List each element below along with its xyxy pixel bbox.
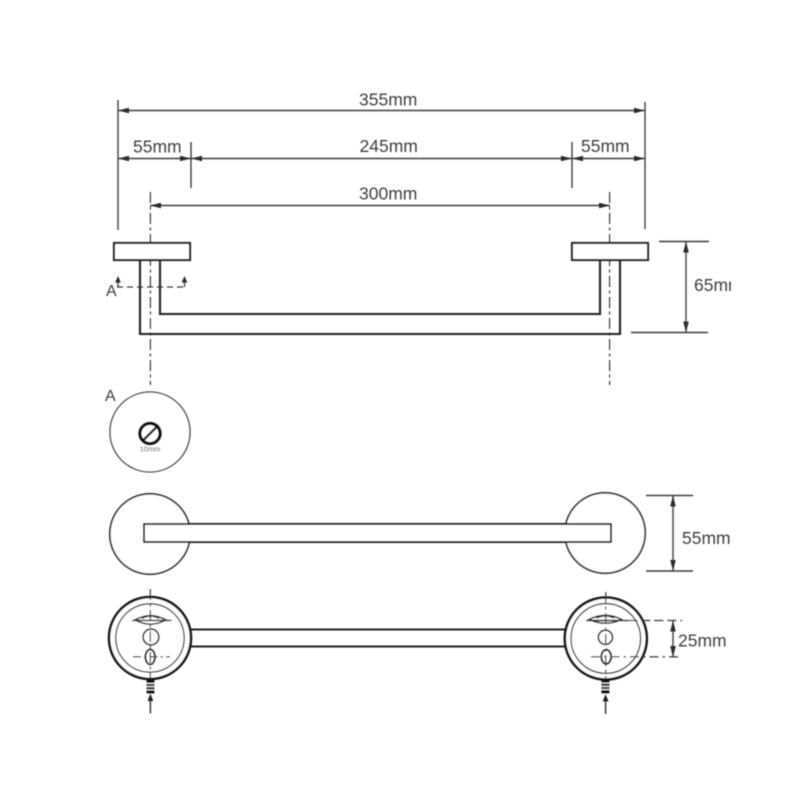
screw right: [601, 680, 609, 694]
keyhole slot right (lens): [589, 615, 621, 623]
dimension 55mm (side view): [646, 495, 693, 497]
keyhole slot left (lens): [135, 616, 166, 625]
extension tick at 191: [190, 142, 192, 188]
bottom view right inner circle: [571, 604, 641, 674]
wall plate right (top view): [572, 243, 648, 260]
vertical centerline bottom-left plate: [149, 589, 151, 678]
extension line left (355mm datum): [117, 100, 119, 230]
dimension 25mm extension dashes bottom: [591, 656, 682, 658]
screw left: [147, 680, 155, 693]
wall plate left (top view): [114, 243, 190, 260]
svg-text:55mm: 55mm: [133, 137, 182, 157]
screw circle left: [143, 629, 159, 645]
bottom view left outer circle: [109, 597, 191, 679]
bar outer outline (top view): [140, 260, 620, 334]
svg-text:55mm: 55mm: [682, 528, 731, 548]
horizontal centerline through oval left: [133, 656, 170, 658]
svg-text:355mm: 355mm: [359, 90, 417, 110]
dimension 55mm right line: [572, 158, 645, 160]
screw slot diagonal: [142, 425, 159, 442]
extension tick at 572: [571, 142, 573, 188]
centerline left post: [149, 192, 151, 385]
side view right circle: [565, 493, 645, 573]
screw circle right: [598, 630, 612, 644]
dimension 55mm left line: [118, 158, 191, 160]
bottom view bar lines: [191, 629, 565, 631]
side view left circle: [110, 494, 190, 574]
svg-text:A: A: [106, 283, 117, 300]
bottom view right outer circle: [565, 598, 647, 680]
vertical centerline bottom-right plate: [605, 592, 607, 678]
centerline right post: [609, 192, 611, 385]
svg-text:55mm: 55mm: [581, 136, 630, 156]
bar inner outline (top view): [160, 260, 600, 314]
svg-text:25mm: 25mm: [678, 631, 727, 651]
svg-text:A: A: [105, 388, 116, 405]
dimension 300mm line: [150, 205, 610, 207]
dimension 65mm: [659, 241, 709, 243]
detail A circle: [110, 392, 190, 472]
dimension 355mm line: [118, 110, 645, 112]
extension line right (355mm datum): [644, 102, 646, 229]
side view bar: [144, 524, 611, 542]
svg-text:245mm: 245mm: [360, 136, 418, 156]
section line A-A: [117, 286, 185, 288]
screw hole ring: [140, 423, 160, 443]
oval hole left: [145, 649, 155, 664]
mounting arrow right: [603, 694, 609, 701]
dimension 245mm line: [191, 158, 572, 160]
svg-text:10mm: 10mm: [140, 445, 161, 454]
dimension 25mm extension dashes top: [628, 620, 682, 622]
oval hole right: [601, 650, 611, 664]
svg-text:300mm: 300mm: [359, 184, 417, 204]
mounting arrow left: [148, 694, 154, 701]
dimension 25mm line: [672, 621, 674, 658]
bottom view left inner circle: [116, 604, 184, 672]
